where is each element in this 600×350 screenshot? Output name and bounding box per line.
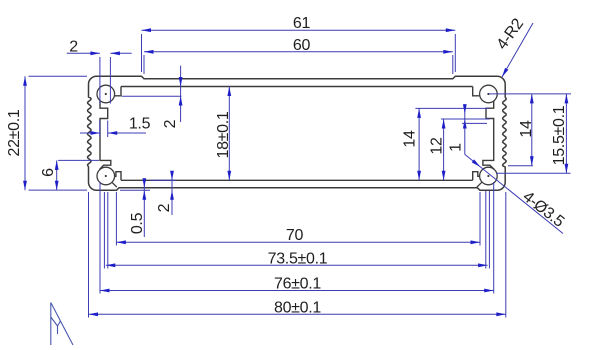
left inner wall with card-guide ribs — [100, 101, 111, 170]
dimension 61 (top) — [142, 15, 456, 72]
dimension 2 (top-left boss slit) — [67, 38, 132, 103]
leader 4-R2 (corner radii) — [494, 15, 533, 77]
dimension 18±0.1 (inner cavity height) — [215, 87, 232, 181]
extrusion outer profile outline — [88, 76, 507, 190]
screw boss top-right (hole 3.5mm) — [480, 85, 498, 103]
right inner wall with card-guide ribs — [483, 101, 494, 170]
screw boss top-left (hole 3.5mm) — [97, 85, 115, 103]
inner top wall line — [121, 86, 473, 88]
svg-text:14: 14 — [518, 120, 535, 138]
bottom-right rib hook — [473, 172, 480, 181]
bottom-left rib hook — [114, 172, 121, 181]
dimension 14 (interior right wall, upper) — [402, 108, 490, 180]
svg-text:2: 2 — [162, 119, 179, 128]
svg-text:15.5±0.1: 15.5±0.1 — [551, 105, 568, 165]
dimension 6 (left lower notch) — [40, 160, 99, 190]
svg-text:12: 12 — [429, 137, 446, 155]
inner bottom wall line — [121, 179, 473, 181]
svg-text:1: 1 — [447, 143, 464, 152]
svg-text:1.5: 1.5 — [129, 116, 151, 133]
svg-text:73.5±0.1: 73.5±0.1 — [268, 250, 328, 267]
svg-text:2: 2 — [69, 38, 78, 55]
dimension 2 (bottom wall thickness) — [150, 171, 176, 215]
svg-text:22±0.1: 22±0.1 — [6, 109, 23, 156]
bottom-right boss chamfer — [477, 182, 482, 187]
svg-text:18±0.1: 18±0.1 — [215, 111, 232, 158]
svg-text:4-Ø3.5: 4-Ø3.5 — [519, 188, 567, 231]
svg-text:6: 6 — [40, 168, 57, 177]
svg-text:2: 2 — [156, 203, 173, 212]
dimension 70 (bottom recess width) — [116, 192, 480, 246]
dimension 76±0.1 (inner width) — [100, 182, 494, 294]
dimension 60 (top) — [144, 37, 453, 74]
dimension 2 (pcb ledge depth, interior) — [122, 66, 183, 129]
top-left ledge hook — [115, 87, 121, 96]
svg-text:80±0.1: 80±0.1 — [274, 299, 321, 316]
top-right ledge hook — [473, 87, 479, 96]
dimension 73.5±0.1 (boss hole spacing) — [104, 191, 489, 269]
dimension 22±0.1 (left overall height) — [6, 76, 87, 190]
bottom-left boss chamfer — [112, 182, 117, 187]
svg-text:76±0.1: 76±0.1 — [274, 276, 321, 293]
screw boss bottom-left (hole 3.5mm) — [97, 167, 115, 185]
dimension 15.5±0.1 (right side) — [496, 94, 571, 173]
dimension 1 (interior right wall rib gap) — [447, 104, 487, 154]
dimension 12 (interior right wall) — [429, 119, 490, 180]
dimension 80±0.1 (overall width) — [89, 192, 506, 318]
svg-text:0.5: 0.5 — [129, 212, 146, 234]
svg-text:4-R2: 4-R2 — [494, 15, 528, 52]
screw boss bottom-right (hole 3.5mm) — [480, 167, 498, 185]
dimension 14 (right side) — [489, 94, 571, 166]
leader 4-Ø3.5 (boss holes) — [465, 154, 568, 233]
first-angle projection symbol (bottom-left) — [51, 303, 73, 346]
svg-text:14: 14 — [402, 130, 419, 148]
svg-text:60: 60 — [293, 37, 311, 54]
svg-text:70: 70 — [286, 227, 304, 244]
svg-text:61: 61 — [293, 15, 311, 32]
dimension 0.5 (bottom step) — [120, 178, 150, 237]
dimension 1.5 (left wall rib) — [80, 116, 151, 138]
